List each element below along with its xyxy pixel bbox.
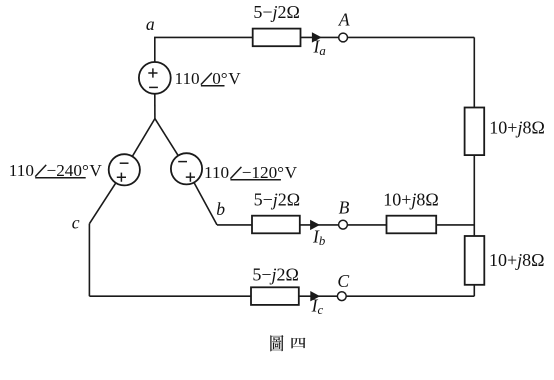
svg-text:5−j2Ω: 5−j2Ω: [252, 265, 299, 285]
wire: [89, 295, 474, 297]
resistor 10+j8 (line A load): [465, 108, 485, 156]
wire: [473, 37, 475, 296]
voltage source Vcn 110/-240: [109, 154, 140, 185]
svg-text:c: c: [72, 212, 80, 232]
svg-text:b: b: [216, 199, 225, 219]
wire: [187, 169, 218, 225]
current arrow Ib: [310, 220, 320, 230]
svg-text:10+j8Ω: 10+j8Ω: [383, 189, 439, 209]
resistor 5-j2 (line c): [251, 287, 299, 305]
svg-text:5−j2Ω: 5−j2Ω: [253, 2, 300, 22]
current arrow Ic: [310, 291, 320, 301]
svg-text:A: A: [338, 10, 350, 30]
svg-text:a: a: [146, 14, 155, 34]
terminal B: [339, 220, 348, 229]
svg-text:V: V: [285, 163, 298, 182]
voltage source Van 110/0: [139, 62, 171, 94]
resistor 10+j8 (lower right load): [465, 236, 485, 285]
resistor 5-j2 (line a): [253, 29, 301, 47]
wire: [300, 36, 474, 38]
label 110 angle -240 V: [9, 161, 103, 180]
svg-text:110: 110: [204, 163, 229, 182]
svg-text:110: 110: [175, 69, 200, 88]
svg-text:B: B: [339, 198, 350, 218]
resistor 5-j2 (line b): [252, 216, 300, 234]
terminal A: [339, 33, 348, 42]
label 110 angle -120 V: [204, 163, 298, 182]
terminal C: [337, 292, 346, 301]
wire: [154, 37, 156, 78]
svg-text:5−j2Ω: 5−j2Ω: [254, 189, 301, 209]
svg-text:V: V: [228, 69, 241, 88]
svg-text:110: 110: [9, 161, 34, 180]
label 110 angle 0 V: [175, 69, 242, 88]
wire: [217, 224, 474, 226]
svg-text:10+j8Ω: 10+j8Ω: [489, 118, 545, 138]
wire: [154, 94, 156, 119]
svg-text:−240°: −240°: [47, 161, 89, 180]
wire: [89, 170, 124, 224]
svg-text:V: V: [89, 161, 102, 180]
wire: [154, 36, 253, 38]
svg-text:C: C: [337, 271, 349, 291]
svg-text:10+j8Ω: 10+j8Ω: [489, 250, 545, 270]
caption figure four: [270, 335, 305, 351]
wire: [155, 119, 187, 169]
voltage source Vbn 110/-120: [171, 153, 202, 184]
current arrow Ia: [312, 32, 322, 42]
svg-text:−120°: −120°: [242, 163, 284, 182]
resistor 10+j8 (line b load): [387, 216, 437, 234]
wire: [88, 224, 90, 297]
wire: [124, 119, 155, 170]
